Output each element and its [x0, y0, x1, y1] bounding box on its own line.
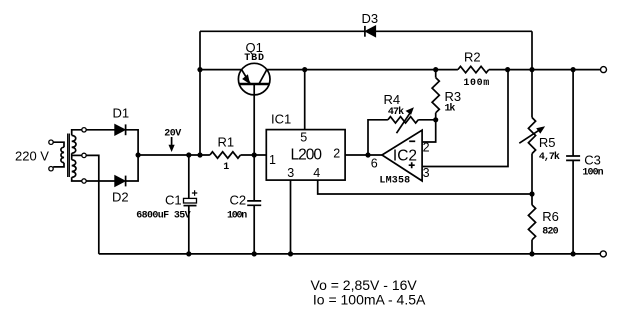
resistor R5 (variable)	[519, 118, 560, 195]
wire Q1 base down through rail to C2	[253, 84, 255, 201]
node R6 gnd	[529, 251, 534, 256]
svg-text:Vo = 2,85V - 16V: Vo = 2,85V - 16V	[311, 277, 418, 293]
svg-text:4: 4	[313, 166, 320, 180]
svg-text:R5: R5	[539, 135, 556, 150]
transistor Q1	[238, 40, 270, 95]
wire Q1 collector to output rail	[267, 69, 458, 71]
svg-text:2: 2	[333, 147, 340, 161]
svg-text:L200: L200	[291, 147, 323, 164]
svg-text:220 V: 220 V	[15, 148, 49, 163]
svg-text:Io = 100mA - 4.5A: Io = 100mA - 4.5A	[313, 292, 426, 308]
svg-text:100n: 100n	[227, 211, 247, 222]
svg-text:3: 3	[423, 166, 430, 180]
svg-text:4,7k: 4,7k	[539, 151, 560, 163]
wire IC1 pin 2 to IC2 output	[345, 154, 382, 156]
resistor R2 (current sense)	[458, 49, 489, 89]
node R5/R6 junction	[529, 191, 534, 196]
node R4 tap	[365, 152, 370, 157]
capacitor C1	[136, 155, 197, 254]
diode D3	[362, 11, 379, 37]
resistor R3	[432, 70, 461, 120]
svg-text:1k: 1k	[445, 102, 456, 114]
transformer T1 primary	[49, 140, 64, 171]
svg-text:5: 5	[300, 130, 307, 144]
svg-text:100n: 100n	[582, 168, 603, 179]
node C3 top	[571, 67, 576, 72]
svg-text:TBD: TBD	[244, 53, 264, 64]
svg-text:100m: 100m	[463, 78, 489, 89]
svg-text:D1: D1	[113, 106, 130, 121]
svg-text:R6: R6	[542, 209, 559, 224]
node R3/R4 junction	[433, 117, 438, 122]
output terminal -	[600, 251, 606, 257]
svg-text:C3: C3	[584, 152, 601, 167]
svg-text:6800uF 35V: 6800uF 35V	[136, 211, 191, 222]
wire secondary top to D1	[86, 129, 115, 131]
svg-text:D3: D3	[362, 11, 379, 26]
svg-text:IC2: IC2	[393, 147, 417, 164]
wire IC1 pin 3 to ground	[290, 180, 292, 254]
svg-text:3: 3	[287, 166, 294, 180]
node pin3 gnd	[288, 251, 293, 256]
node pin5/collector	[302, 67, 307, 72]
wire IC2 inverting input to R3/R4 junction	[422, 120, 436, 142]
resistor R1	[210, 134, 241, 172]
wire D2 cathode to rail	[126, 155, 139, 181]
svg-text:C2: C2	[230, 192, 247, 207]
wire Q1 emitter branch	[200, 69, 242, 71]
wire D1 cathode to rail	[126, 130, 139, 155]
svg-text:C1: C1	[165, 192, 182, 207]
wire top rail	[200, 30, 532, 32]
wire main rail to R1	[138, 154, 210, 156]
svg-text:IC1: IC1	[271, 112, 291, 127]
op-amp IC2 LM358	[371, 130, 430, 186]
capacitor C2	[227, 192, 261, 254]
svg-text:LM358: LM358	[379, 175, 410, 186]
svg-text:1: 1	[223, 162, 229, 173]
node 20V label and arrow	[164, 129, 181, 152]
svg-text:6: 6	[371, 157, 378, 171]
node Q1 base/C2	[252, 152, 257, 157]
output terminal +	[601, 67, 607, 73]
svg-text:47k: 47k	[388, 106, 404, 118]
wire left vertical (input node)	[199, 31, 201, 155]
svg-text:R3: R3	[445, 89, 462, 104]
capacitor C3	[566, 70, 604, 254]
node C3 gnd	[571, 251, 576, 256]
wire right vertical from top rail	[531, 31, 533, 117]
svg-text:D2: D2	[112, 190, 129, 205]
wire after R2 to + output terminal	[489, 69, 601, 71]
resistor R4 (variable)	[368, 92, 436, 155]
svg-text:R1: R1	[218, 134, 235, 149]
node R3 top	[433, 67, 438, 72]
diode D1	[113, 106, 130, 136]
IC1 L200 regulator	[266, 112, 345, 180]
wire ground rail	[99, 253, 601, 255]
transformer T1 secondary	[72, 128, 87, 184]
node R5 top	[529, 67, 534, 72]
node current sense	[505, 67, 510, 72]
node C2 gnd	[252, 251, 257, 256]
transformer T1 core	[68, 134, 70, 178]
wire R1 to IC1 pin 1	[241, 154, 267, 156]
node input rail	[197, 152, 202, 157]
wire IC2 + input to current sense node	[422, 70, 508, 167]
node rectifier out	[136, 152, 141, 157]
svg-text:20V: 20V	[164, 129, 181, 140]
svg-text:R2: R2	[464, 49, 481, 64]
svg-text:R4: R4	[384, 92, 401, 107]
node C1 top	[186, 152, 191, 157]
wire secondary bottom to D2	[86, 180, 115, 182]
resistor R6	[528, 194, 559, 254]
wire center tap to ground	[86, 155, 99, 254]
wire IC1 pin 4 to R5/R6 junction	[318, 180, 532, 194]
node input top	[197, 67, 202, 72]
diode D2	[112, 176, 129, 205]
svg-text:820: 820	[542, 226, 558, 237]
node C1 gnd	[186, 251, 191, 256]
wire IC1 pin 5 to collector rail	[304, 70, 306, 130]
svg-text:1: 1	[269, 153, 276, 167]
